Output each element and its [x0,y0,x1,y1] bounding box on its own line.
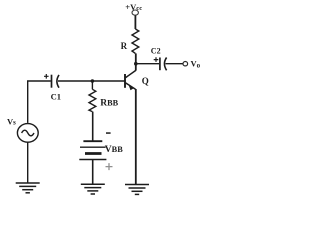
node base junction dot [91,79,95,83]
svg-text:C2: C2 [151,47,161,56]
wire Vs top to C1 [28,81,51,123]
wire Vs to ground [27,142,29,183]
wire collector node to C2 [136,63,159,65]
source Vs [17,124,38,143]
ground VBB [81,184,105,194]
plus sign C2 [154,57,159,62]
wire emitter to ground [135,89,137,184]
transistor Q [125,64,136,90]
svg-text:Vs: Vs [7,117,16,127]
wire battery to ground [92,160,94,185]
resistor R [132,29,139,53]
node collector junction dot [134,62,138,66]
capacitor C1 [52,75,60,88]
resistor RBB [89,89,96,111]
terminal Vo [183,62,188,66]
wire C2 to Vo terminal [166,63,184,65]
ground emitter [125,185,149,195]
ground Vs [16,183,40,193]
label plus VBB [106,163,113,170]
wire Vcc to R [134,16,136,30]
svg-text:VBB: VBB [105,145,123,155]
svg-text:RBB: RBB [100,99,118,109]
svg-text:C1: C1 [51,91,61,101]
svg-text:R: R [121,41,128,51]
capacitor C2 [160,58,167,71]
wire C1 to base [58,80,125,82]
battery VBB [79,141,106,159]
svg-text:Q: Q [142,76,149,86]
svg-text:Vo: Vo [191,59,201,70]
wire base node to RBB [91,81,93,89]
terminal +Vcc [132,10,138,15]
wire R to collector node [135,53,137,63]
plus sign C1 [44,74,49,79]
wire RBB to battery [92,112,94,141]
label minus VBB [106,132,111,134]
